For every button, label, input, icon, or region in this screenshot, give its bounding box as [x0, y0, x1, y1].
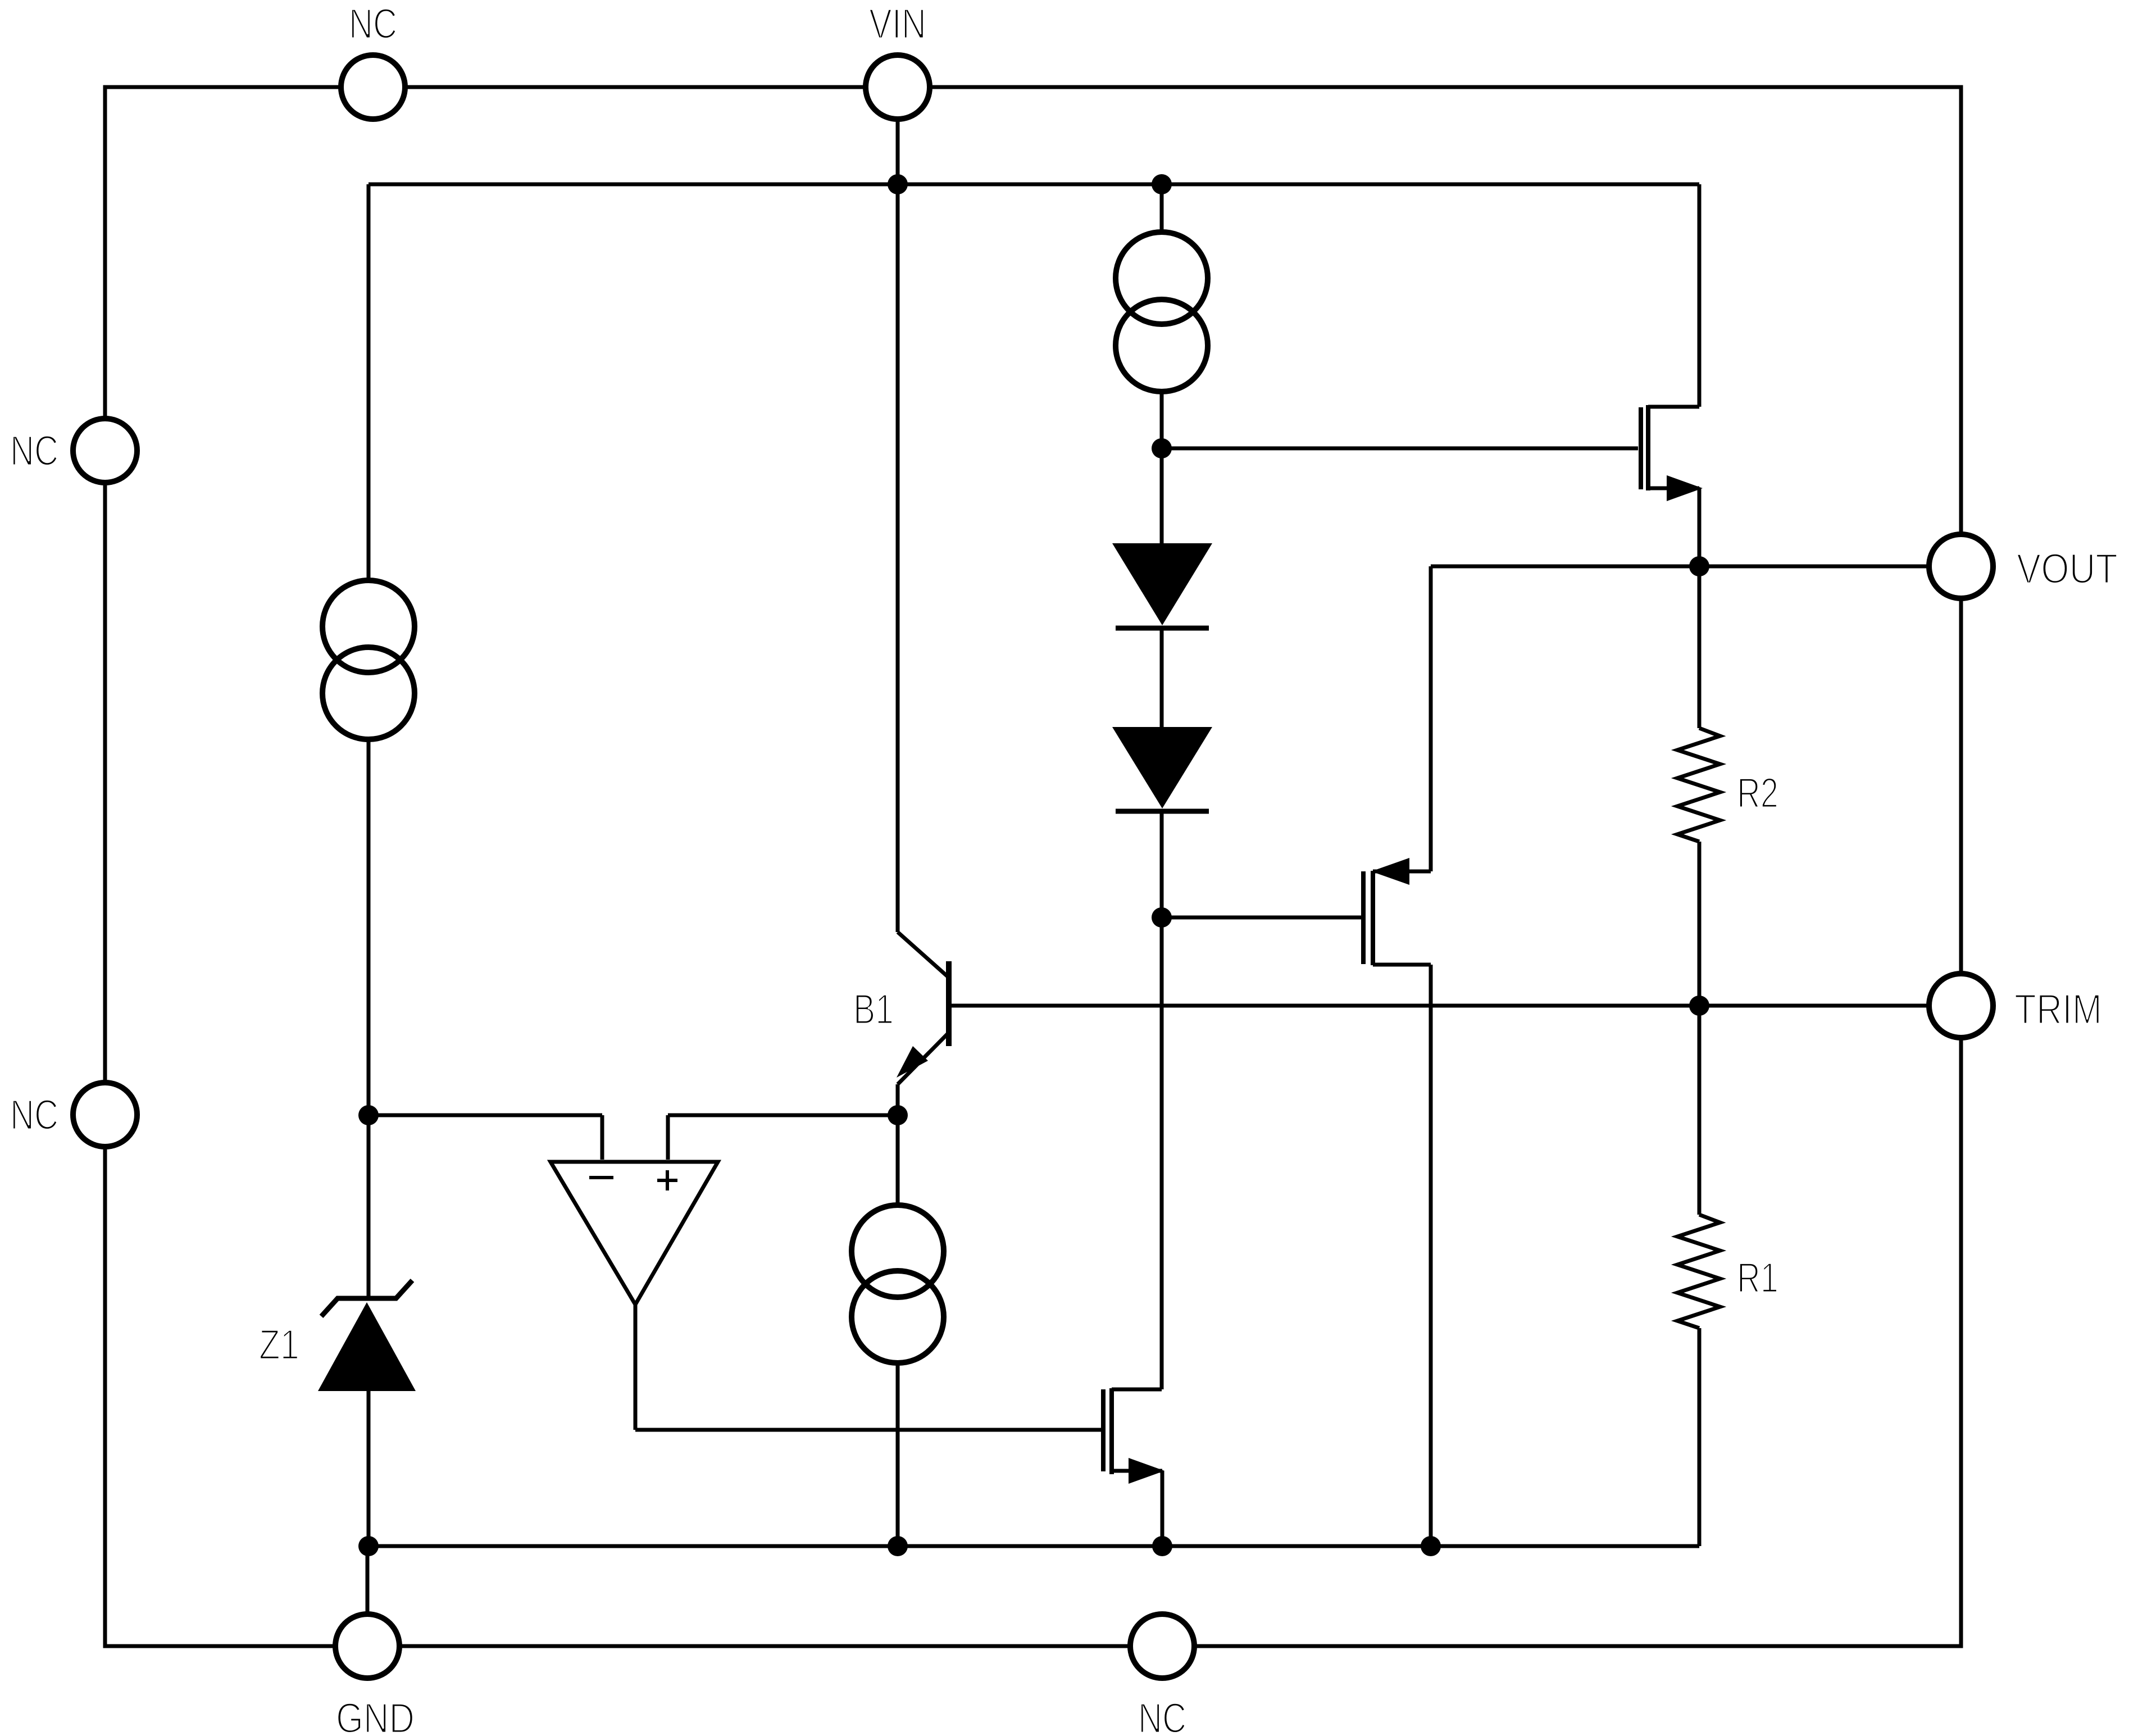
- wire: VIN column down to B1 collector: [896, 184, 900, 932]
- wire: VOUT rail: [1431, 565, 1929, 569]
- svg-text:B1: B1: [853, 985, 894, 1033]
- wire: VOUT node down to M2 source: [1429, 566, 1433, 871]
- wire: R2 to TRIM node to R1: [1698, 842, 1702, 1215]
- svg-text:VOUT: VOUT: [2017, 545, 2118, 592]
- diode D2: [1112, 727, 1212, 811]
- wire: zener anode to ground rail: [367, 1391, 371, 1546]
- wire: PMOS gate node down to M3 drain: [1160, 917, 1164, 1389]
- svg-text:Z1: Z1: [259, 1321, 299, 1368]
- wire: R1 to ground rail: [1698, 1328, 1702, 1546]
- svg-text:TRIM: TRIM: [2014, 985, 2102, 1033]
- pin GND: [335, 1614, 399, 1678]
- op-amp U1: [551, 1162, 718, 1305]
- node gnd/M2: [1421, 1536, 1441, 1556]
- pin TRIM: [1929, 974, 1993, 1038]
- pin NC top: [341, 55, 405, 119]
- node VOUT/R2: [1689, 556, 1709, 576]
- node gnd/I3: [888, 1536, 908, 1556]
- node zener/left rail: [358, 1105, 379, 1125]
- node M1 gate: [1152, 438, 1172, 458]
- wire: D2 to PMOS gate node: [1160, 811, 1164, 917]
- svg-text:NC: NC: [10, 427, 58, 474]
- pin VOUT: [1929, 534, 1993, 598]
- transistor M3 (bottom NMOS): [1103, 1388, 1164, 1546]
- wire: inner left vertical upper: [367, 184, 371, 580]
- node M2 gate: [1152, 907, 1172, 928]
- wire: op-amp output down and right to M3 gate: [635, 1305, 1102, 1430]
- wire: node rail to current source I3: [896, 1115, 900, 1205]
- transistor M2 (PMOS): [1363, 858, 1409, 965]
- wire: M1 source to VOUT node: [1648, 488, 1699, 566]
- wire: M2 gate rail: [1162, 916, 1362, 920]
- pin NC bottom: [1130, 1614, 1194, 1678]
- wire: M2 source horizontal: [1373, 870, 1431, 874]
- node B1 emitter: [888, 1105, 908, 1125]
- wire: GND pin stub: [366, 1546, 370, 1615]
- wire: inner left vertical lower to zener: [367, 739, 371, 1298]
- svg-text:GND: GND: [336, 1694, 415, 1736]
- wire: TRIM rail from B1 base: [949, 1004, 1929, 1008]
- wire: node rail right segment to op-amp plus: [668, 1115, 898, 1160]
- wire: ground rail: [369, 1544, 1699, 1548]
- wire: D1 to D2: [1160, 628, 1164, 727]
- svg-text:NC: NC: [1138, 1694, 1186, 1736]
- svg-text:R2: R2: [1737, 769, 1778, 816]
- node TRIM/R1/R2: [1689, 996, 1709, 1016]
- resistor R2: [1677, 728, 1720, 842]
- zener Z1: [318, 1280, 416, 1391]
- wire: current source I3 to ground rail: [896, 1363, 900, 1546]
- wire: VIN pin stub: [896, 120, 900, 184]
- wire: B1 emitter to node rail: [896, 1084, 900, 1115]
- diode D1: [1112, 543, 1212, 628]
- current source I2 (top middle): [1116, 232, 1208, 392]
- transistor M1 (top NMOS): [1641, 405, 1703, 501]
- wire: current source I2 to diode D1: [1160, 392, 1164, 543]
- resistor R1: [1677, 1215, 1720, 1328]
- node gnd/M3: [1152, 1536, 1172, 1556]
- node VIN/top rail: [888, 174, 908, 194]
- wire: VOUT node to R2: [1698, 566, 1702, 728]
- wire: inner top rail: [369, 183, 1699, 187]
- outer IC border: [105, 87, 1961, 1646]
- transistor B1 (PNP): [897, 932, 949, 1084]
- pin NC left lower: [73, 1083, 137, 1147]
- svg-text:VIN: VIN: [869, 0, 926, 47]
- node I2/top rail: [1152, 174, 1172, 194]
- node gnd/zener: [358, 1536, 379, 1556]
- svg-text:NC: NC: [349, 0, 397, 47]
- pin NC left upper: [73, 419, 137, 483]
- current source I1 (left): [322, 580, 415, 739]
- svg-text:R1: R1: [1737, 1254, 1778, 1301]
- current source I3 (below B1): [852, 1205, 944, 1363]
- wire: node rail left segment to op-amp minus: [369, 1115, 602, 1160]
- svg-text:NC: NC: [10, 1091, 58, 1138]
- pin VIN: [866, 55, 930, 119]
- wire: top rail to current source I2: [1160, 184, 1164, 232]
- wire: M2 drain horizontal and down to ground rail: [1373, 965, 1431, 1546]
- wire: M1 drain to top rail: [1648, 184, 1699, 407]
- wire: gate rail of M1: [1162, 447, 1638, 451]
